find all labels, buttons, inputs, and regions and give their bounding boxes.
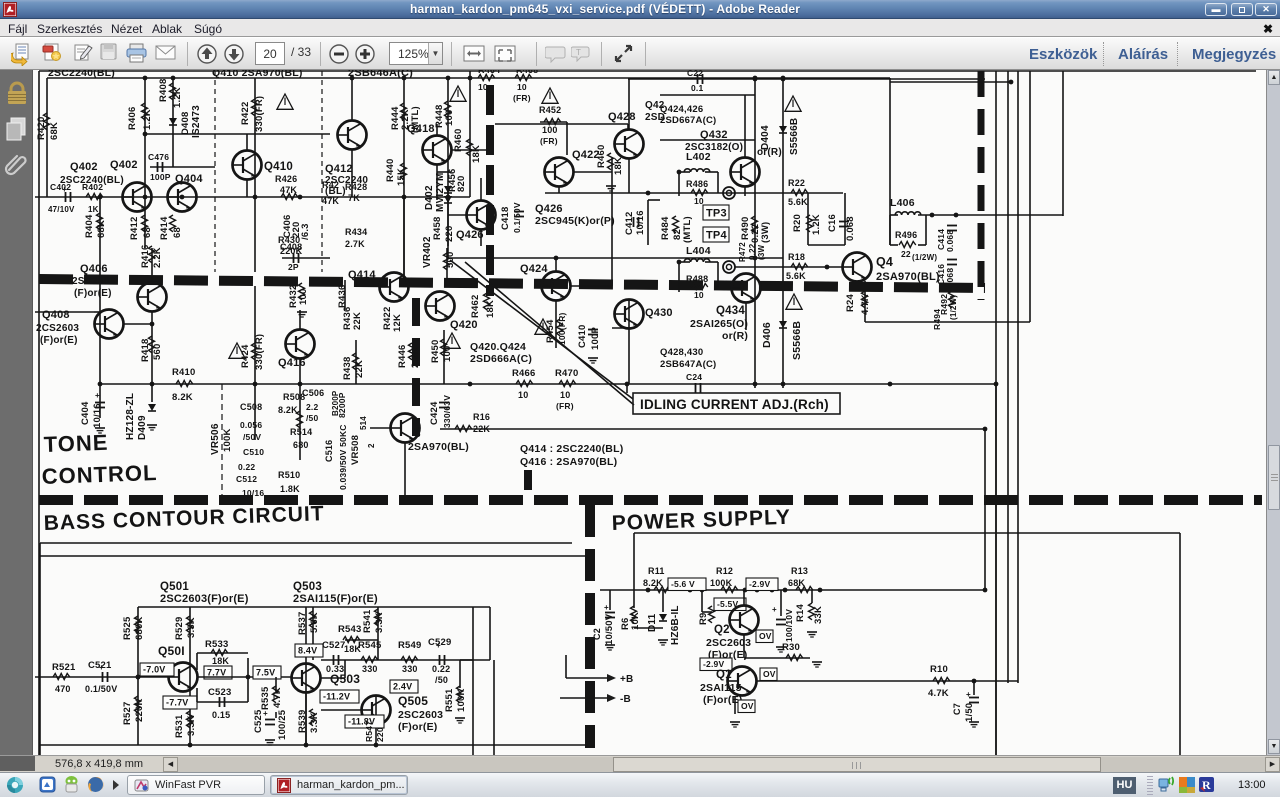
svg-text:68K: 68K bbox=[49, 122, 60, 140]
svg-text:C402: C402 bbox=[50, 182, 71, 192]
svg-text:R42: R42 bbox=[322, 180, 339, 190]
svg-text:D409: D409 bbox=[137, 415, 148, 440]
svg-text:C476: C476 bbox=[148, 152, 169, 162]
svg-text:10: 10 bbox=[560, 390, 570, 400]
svg-text:2SC2603: 2SC2603 bbox=[398, 709, 443, 721]
svg-text:2SB647A(C): 2SB647A(C) bbox=[660, 359, 716, 370]
svg-text:2SAI265(O): 2SAI265(O) bbox=[690, 318, 748, 330]
svg-text:C24: C24 bbox=[686, 372, 702, 382]
svg-text:68K: 68K bbox=[788, 578, 805, 588]
svg-text:1.2K: 1.2K bbox=[811, 214, 822, 235]
svg-text:3.3K: 3.3K bbox=[374, 612, 385, 633]
svg-text:47K: 47K bbox=[280, 185, 297, 195]
svg-text:(FR): (FR) bbox=[540, 136, 558, 146]
svg-text:C508: C508 bbox=[240, 402, 262, 412]
svg-text:0.1: 0.1 bbox=[691, 83, 703, 93]
svg-text:2SD666A(C): 2SD666A(C) bbox=[470, 353, 532, 365]
svg-text:B200P: B200P bbox=[331, 390, 340, 416]
svg-text:-2.9V: -2.9V bbox=[749, 579, 770, 589]
svg-text:100: 100 bbox=[298, 289, 309, 305]
svg-text:OV: OV bbox=[759, 631, 772, 641]
svg-text:0.22: 0.22 bbox=[238, 462, 255, 472]
svg-text:L404: L404 bbox=[686, 245, 711, 257]
svg-text:8.2K: 8.2K bbox=[643, 578, 663, 588]
svg-text:D408: D408 bbox=[180, 111, 191, 135]
svg-text:Q414 : 2SC2240(BL): Q414 : 2SC2240(BL) bbox=[520, 443, 623, 455]
svg-text:R484: R484 bbox=[660, 216, 671, 240]
svg-text:HZ6B-IL: HZ6B-IL bbox=[670, 605, 681, 645]
svg-text:2.2K: 2.2K bbox=[410, 347, 421, 368]
svg-text:68K: 68K bbox=[96, 220, 107, 238]
svg-text:R426: R426 bbox=[275, 174, 297, 184]
svg-text:L402: L402 bbox=[686, 151, 711, 163]
svg-text:0.1/50V: 0.1/50V bbox=[85, 684, 117, 694]
svg-text:Q402: Q402 bbox=[70, 161, 98, 173]
svg-text:Q424,426: Q424,426 bbox=[660, 104, 703, 115]
svg-text:18K: 18K bbox=[485, 300, 496, 318]
svg-text:+: + bbox=[263, 709, 268, 718]
svg-text:-7.0V: -7.0V bbox=[143, 665, 166, 675]
svg-text:(MTL): (MTL) bbox=[682, 216, 693, 243]
svg-text:0.22: 0.22 bbox=[432, 664, 450, 674]
svg-text:Q424: Q424 bbox=[520, 263, 548, 275]
svg-text:R440: R440 bbox=[385, 158, 396, 182]
svg-text:Q1: Q1 bbox=[716, 669, 732, 681]
svg-text:D402: D402 bbox=[424, 185, 435, 210]
svg-text:514: 514 bbox=[359, 416, 368, 430]
svg-text:10/50V: 10/50V bbox=[604, 613, 615, 645]
svg-text:100P: 100P bbox=[150, 172, 171, 182]
svg-text:C506: C506 bbox=[302, 388, 324, 398]
svg-text:R446: R446 bbox=[397, 344, 408, 368]
svg-text:0.068: 0.068 bbox=[945, 230, 955, 252]
svg-text:1.2K: 1.2K bbox=[142, 109, 153, 130]
svg-text:Q503: Q503 bbox=[293, 581, 322, 593]
svg-text:680: 680 bbox=[293, 440, 309, 450]
svg-text:22: 22 bbox=[901, 249, 911, 259]
svg-text:Q406: Q406 bbox=[80, 263, 108, 275]
svg-text:330(FR): 330(FR) bbox=[254, 96, 265, 132]
svg-text:18K: 18K bbox=[212, 656, 229, 666]
svg-text:R531: R531 bbox=[174, 714, 185, 738]
svg-text:BASS CONTOUR CIRCUIT: BASS CONTOUR CIRCUIT bbox=[43, 502, 325, 535]
svg-text:2: 2 bbox=[367, 443, 376, 448]
svg-text:R410: R410 bbox=[172, 367, 196, 378]
svg-text:1/50: 1/50 bbox=[964, 703, 975, 722]
svg-text:Q428,430: Q428,430 bbox=[660, 347, 703, 358]
svg-text:+: + bbox=[436, 641, 441, 650]
svg-text:R406: R406 bbox=[127, 106, 138, 130]
svg-text:18K: 18K bbox=[613, 157, 624, 175]
svg-text:Q414: Q414 bbox=[348, 269, 376, 281]
svg-text:C418: C418 bbox=[500, 206, 511, 230]
svg-text:+: + bbox=[772, 605, 777, 614]
svg-text:10/16: 10/16 bbox=[92, 403, 103, 428]
svg-text:3.3K: 3.3K bbox=[186, 715, 197, 736]
svg-text:R543: R543 bbox=[338, 624, 362, 635]
svg-text:10: 10 bbox=[518, 390, 528, 400]
svg-text:R10: R10 bbox=[930, 664, 948, 675]
svg-text:2P: 2P bbox=[288, 262, 299, 272]
svg-text:0.33: 0.33 bbox=[326, 664, 344, 674]
svg-text:100K: 100K bbox=[456, 688, 467, 712]
svg-text:S5566B: S5566B bbox=[789, 118, 800, 155]
svg-text:/6.3: /6.3 bbox=[300, 223, 311, 240]
svg-text:(F)or(E): (F)or(E) bbox=[703, 694, 743, 706]
svg-text:D404: D404 bbox=[760, 125, 771, 150]
svg-text:+: + bbox=[604, 603, 609, 612]
svg-text:(3W): (3W) bbox=[760, 222, 771, 243]
svg-text:D11: D11 bbox=[647, 613, 658, 632]
svg-text:CONTROL: CONTROL bbox=[41, 460, 158, 489]
svg-text:D406: D406 bbox=[761, 322, 773, 348]
svg-text:2SC2603(F)or(E): 2SC2603(F)or(E) bbox=[160, 593, 249, 605]
svg-text:C527: C527 bbox=[322, 640, 346, 651]
svg-text:680K: 680K bbox=[134, 616, 145, 640]
svg-text:R458: R458 bbox=[432, 216, 443, 240]
svg-text:10: 10 bbox=[694, 290, 704, 300]
svg-text:R468: R468 bbox=[516, 70, 538, 75]
svg-text:(1/2W): (1/2W) bbox=[949, 295, 958, 320]
svg-text:2CS2603: 2CS2603 bbox=[36, 323, 79, 334]
svg-text:470: 470 bbox=[55, 684, 71, 694]
svg-text:10/16: 10/16 bbox=[635, 210, 646, 235]
svg-text:R462: R462 bbox=[470, 294, 481, 318]
svg-text:2.2: 2.2 bbox=[306, 402, 318, 412]
svg-text:(3W: (3W bbox=[757, 244, 766, 260]
svg-text:33K: 33K bbox=[813, 606, 824, 624]
svg-text:Q420: Q420 bbox=[450, 319, 478, 331]
svg-text:C22: C22 bbox=[687, 70, 703, 78]
svg-text:10: 10 bbox=[517, 82, 527, 92]
svg-text:1.8K: 1.8K bbox=[280, 484, 300, 494]
svg-text:R13: R13 bbox=[791, 566, 808, 576]
svg-text:R414: R414 bbox=[159, 216, 170, 240]
svg-text:Q50I: Q50I bbox=[158, 644, 185, 658]
svg-text:R496: R496 bbox=[895, 230, 917, 240]
svg-text:Q434: Q434 bbox=[716, 305, 745, 317]
svg-text:5.6K: 5.6K bbox=[786, 271, 806, 281]
svg-text:R470: R470 bbox=[555, 368, 579, 379]
svg-text:Q420.Q424: Q420.Q424 bbox=[470, 341, 526, 353]
svg-text:1K: 1K bbox=[88, 205, 99, 214]
svg-text:C404: C404 bbox=[80, 401, 91, 425]
svg-text:18K: 18K bbox=[471, 145, 482, 163]
svg-text:0.22: 0.22 bbox=[748, 243, 757, 260]
svg-text:R30: R30 bbox=[782, 642, 800, 653]
svg-text:R537: R537 bbox=[297, 611, 308, 635]
svg-text:8.2K: 8.2K bbox=[278, 405, 298, 415]
svg-text:R424: R424 bbox=[240, 344, 251, 368]
svg-text:-B: -B bbox=[620, 694, 631, 705]
svg-text:C410: C410 bbox=[577, 324, 588, 348]
svg-text:R486: R486 bbox=[686, 179, 708, 189]
svg-text:R533: R533 bbox=[205, 639, 229, 650]
svg-text:R466: R466 bbox=[512, 368, 536, 379]
svg-text:100K: 100K bbox=[222, 428, 233, 452]
svg-text:560: 560 bbox=[152, 344, 163, 360]
svg-text:1.2K: 1.2K bbox=[172, 87, 183, 108]
svg-text:R514: R514 bbox=[290, 427, 312, 437]
svg-text:Q410: Q410 bbox=[264, 161, 293, 173]
svg-text:R24: R24 bbox=[845, 293, 856, 312]
svg-text:C7: C7 bbox=[952, 703, 962, 715]
svg-text:0.1/50V: 0.1/50V bbox=[512, 202, 522, 233]
svg-text:/50: /50 bbox=[435, 675, 448, 685]
svg-text:4.7K: 4.7K bbox=[928, 688, 949, 699]
svg-text:R551: R551 bbox=[444, 688, 455, 712]
svg-text:2SA970(BL): 2SA970(BL) bbox=[876, 271, 940, 283]
svg-text:Q416: Q416 bbox=[278, 357, 306, 369]
svg-text:R422: R422 bbox=[240, 101, 251, 125]
svg-text:7.5V: 7.5V bbox=[256, 668, 275, 678]
svg-text:Q426: Q426 bbox=[535, 203, 563, 215]
svg-text:Q428: Q428 bbox=[608, 111, 636, 123]
svg-text:R18: R18 bbox=[788, 252, 805, 262]
svg-text:TONE: TONE bbox=[43, 430, 109, 457]
svg-text:(FR): (FR) bbox=[556, 401, 574, 411]
svg-text:C512: C512 bbox=[236, 474, 257, 484]
svg-text:S5566B: S5566B bbox=[791, 321, 803, 360]
svg-text:0.15: 0.15 bbox=[212, 710, 230, 720]
svg-text:C2: C2 bbox=[592, 628, 602, 640]
svg-text:15K: 15K bbox=[396, 168, 407, 186]
svg-text:2SD667A(C): 2SD667A(C) bbox=[660, 115, 716, 126]
svg-text:Q42: Q42 bbox=[645, 100, 665, 111]
svg-text:-5.6 V: -5.6 V bbox=[671, 579, 695, 589]
svg-text:4.7K: 4.7K bbox=[272, 687, 283, 708]
svg-text:0.056: 0.056 bbox=[240, 420, 262, 430]
svg-text:OV: OV bbox=[763, 669, 776, 679]
svg-text:IS2473: IS2473 bbox=[191, 105, 202, 138]
svg-text:Q432: Q432 bbox=[700, 129, 728, 141]
svg-text:2SA970(BL): 2SA970(BL) bbox=[408, 441, 469, 453]
svg-text:+: + bbox=[99, 663, 104, 672]
svg-text:100/25: 100/25 bbox=[277, 709, 288, 740]
svg-text:R472: R472 bbox=[738, 242, 747, 262]
svg-text:R464: R464 bbox=[478, 70, 500, 75]
svg-text:R436: R436 bbox=[337, 284, 348, 308]
svg-text:0.039/50V 50KC: 0.039/50V 50KC bbox=[338, 424, 348, 490]
svg-text:R22: R22 bbox=[788, 178, 805, 188]
svg-text:+B: +B bbox=[620, 674, 633, 685]
svg-text:R438: R438 bbox=[342, 356, 353, 380]
svg-text:/50: /50 bbox=[306, 413, 318, 423]
svg-text:8.4V: 8.4V bbox=[298, 646, 317, 656]
svg-text:R412: R412 bbox=[129, 216, 140, 240]
svg-text:R450: R450 bbox=[430, 339, 441, 363]
svg-text:R525: R525 bbox=[122, 616, 133, 640]
svg-text:6: 6 bbox=[415, 429, 421, 440]
svg-text:Q418: Q418 bbox=[407, 123, 435, 135]
svg-text:68: 68 bbox=[172, 227, 183, 238]
svg-text:IDLING CURRENT ADJ.(Rch): IDLING CURRENT ADJ.(Rch) bbox=[640, 397, 829, 412]
svg-text:C408: C408 bbox=[280, 242, 302, 252]
svg-text:R527: R527 bbox=[122, 701, 133, 725]
svg-text:Q430: Q430 bbox=[645, 307, 673, 319]
svg-text:330/63V: 330/63V bbox=[442, 395, 452, 428]
svg-text:330: 330 bbox=[362, 664, 378, 674]
svg-text:OV: OV bbox=[741, 701, 754, 711]
svg-text:TP4: TP4 bbox=[706, 230, 727, 242]
svg-text:R452: R452 bbox=[539, 105, 561, 115]
svg-text:100: 100 bbox=[444, 110, 455, 126]
svg-text:+: + bbox=[62, 185, 67, 194]
svg-text:R460: R460 bbox=[596, 144, 607, 168]
svg-text:68: 68 bbox=[142, 227, 153, 238]
svg-text:5.6K: 5.6K bbox=[309, 612, 320, 633]
svg-text:R529: R529 bbox=[174, 616, 185, 640]
svg-text:-7.7V: -7.7V bbox=[166, 698, 189, 708]
svg-text:12K: 12K bbox=[392, 314, 403, 332]
svg-text:C510: C510 bbox=[243, 447, 264, 457]
svg-text:+: + bbox=[966, 690, 971, 699]
svg-text:R428: R428 bbox=[345, 182, 367, 192]
svg-text:C523: C523 bbox=[208, 687, 232, 698]
svg-text:Q501: Q501 bbox=[160, 581, 189, 593]
svg-text:100P: 100P bbox=[590, 327, 601, 350]
svg-text:(F)or(E): (F)or(E) bbox=[74, 288, 112, 299]
svg-text:820: 820 bbox=[456, 176, 467, 192]
svg-text:R20: R20 bbox=[792, 214, 803, 232]
svg-text:10: 10 bbox=[694, 196, 704, 206]
svg-text:3.3K: 3.3K bbox=[186, 617, 197, 638]
svg-text:or(R): or(R) bbox=[722, 330, 748, 342]
svg-text:TP3: TP3 bbox=[706, 208, 727, 220]
svg-text:R549: R549 bbox=[398, 640, 422, 651]
svg-text:2.4V: 2.4V bbox=[393, 682, 412, 692]
svg-text:-11.2V: -11.2V bbox=[323, 692, 350, 702]
svg-text:2SC945(K)or(P): 2SC945(K)or(P) bbox=[535, 215, 615, 227]
svg-text:47K: 47K bbox=[322, 196, 339, 206]
svg-text:Q416 : 2SA970(BL): Q416 : 2SA970(BL) bbox=[520, 456, 617, 468]
svg-text:C516: C516 bbox=[324, 440, 334, 462]
svg-text:Q4: Q4 bbox=[876, 255, 893, 269]
svg-text:100/10V: 100/10V bbox=[784, 609, 794, 642]
svg-text:7K: 7K bbox=[348, 193, 360, 203]
svg-text:T: T bbox=[576, 48, 581, 57]
svg-text:C424: C424 bbox=[429, 401, 440, 425]
svg-text:-2.9V: -2.9V bbox=[703, 659, 724, 669]
svg-text:Q408: Q408 bbox=[42, 309, 70, 321]
svg-text:R11: R11 bbox=[648, 566, 665, 576]
svg-text:2SD: 2SD bbox=[645, 112, 665, 123]
svg-text:POWER SUPPLY: POWER SUPPLY bbox=[611, 506, 791, 535]
svg-text:Q2: Q2 bbox=[714, 624, 730, 636]
svg-text:(1/2W): (1/2W) bbox=[912, 253, 937, 262]
svg-text:R402: R402 bbox=[82, 182, 103, 192]
svg-text:2.2K: 2.2K bbox=[152, 247, 163, 268]
svg-text:R521: R521 bbox=[52, 662, 76, 673]
svg-text:R404: R404 bbox=[84, 214, 95, 238]
svg-text:22K: 22K bbox=[352, 312, 363, 330]
svg-text:5.6K: 5.6K bbox=[788, 197, 808, 207]
svg-text:47/10V: 47/10V bbox=[48, 205, 75, 214]
svg-text:Q412: Q412 bbox=[325, 163, 353, 175]
svg-text:R16: R16 bbox=[473, 412, 490, 422]
svg-text:3.3K: 3.3K bbox=[309, 712, 320, 733]
svg-text:C16: C16 bbox=[827, 214, 838, 232]
svg-text:2SAI115: 2SAI115 bbox=[700, 682, 742, 694]
svg-text:VR402: VR402 bbox=[422, 236, 433, 268]
svg-text:Q402: Q402 bbox=[110, 159, 138, 171]
svg-text:330: 330 bbox=[402, 664, 418, 674]
svg-text:2SAI115(F)or(E): 2SAI115(F)or(E) bbox=[293, 593, 378, 605]
svg-text:R434: R434 bbox=[345, 227, 367, 237]
svg-text:0.068: 0.068 bbox=[845, 216, 856, 241]
svg-text:R408: R408 bbox=[158, 78, 169, 102]
svg-text:(F)or(E): (F)or(E) bbox=[398, 721, 438, 733]
svg-text:R545: R545 bbox=[358, 640, 382, 651]
svg-text:7.7V: 7.7V bbox=[207, 668, 226, 678]
svg-text:2SC2603: 2SC2603 bbox=[72, 276, 115, 287]
svg-text:HZ128-ZL: HZ128-ZL bbox=[125, 393, 136, 440]
svg-text:VR506: VR506 bbox=[210, 423, 221, 455]
svg-text:8.2K: 8.2K bbox=[172, 392, 193, 403]
svg-text:Q426: Q426 bbox=[456, 229, 484, 241]
svg-text:220: 220 bbox=[375, 727, 385, 742]
svg-text:L406: L406 bbox=[890, 197, 915, 209]
svg-text:100: 100 bbox=[542, 125, 558, 135]
svg-text:R460: R460 bbox=[453, 128, 464, 152]
svg-text:R541: R541 bbox=[362, 609, 373, 633]
svg-text:VR508: VR508 bbox=[350, 435, 361, 465]
svg-text:R14: R14 bbox=[795, 603, 806, 622]
svg-text:R12: R12 bbox=[716, 566, 733, 576]
svg-text:R494: R494 bbox=[932, 309, 942, 330]
svg-text:R547: R547 bbox=[364, 721, 374, 742]
svg-text:/50V: /50V bbox=[243, 432, 261, 442]
svg-text:Q505: Q505 bbox=[398, 694, 428, 708]
svg-text:R510: R510 bbox=[278, 470, 300, 480]
svg-text:(F)or(E): (F)or(E) bbox=[40, 335, 78, 346]
svg-text:R535: R535 bbox=[260, 686, 271, 710]
svg-text:(FR): (FR) bbox=[513, 93, 531, 103]
svg-text:220: 220 bbox=[444, 226, 455, 242]
svg-text:2.7K: 2.7K bbox=[345, 239, 365, 249]
